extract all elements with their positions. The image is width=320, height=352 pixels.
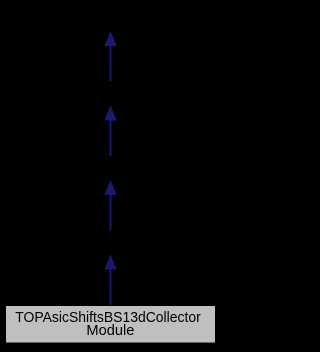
- svg-text:Module: Module: [86, 323, 134, 339]
- inheritance arrow 2: [104, 105, 116, 155]
- inheritance arrow 4 (bottom): [104, 255, 116, 306]
- node box TOPAsicShiftsBS13dCollectorModule (current class, grey75 fill, black border): [6, 306, 216, 344]
- inheritance arrow 1 (top): [104, 31, 116, 81]
- inheritance arrow 3: [104, 180, 116, 230]
